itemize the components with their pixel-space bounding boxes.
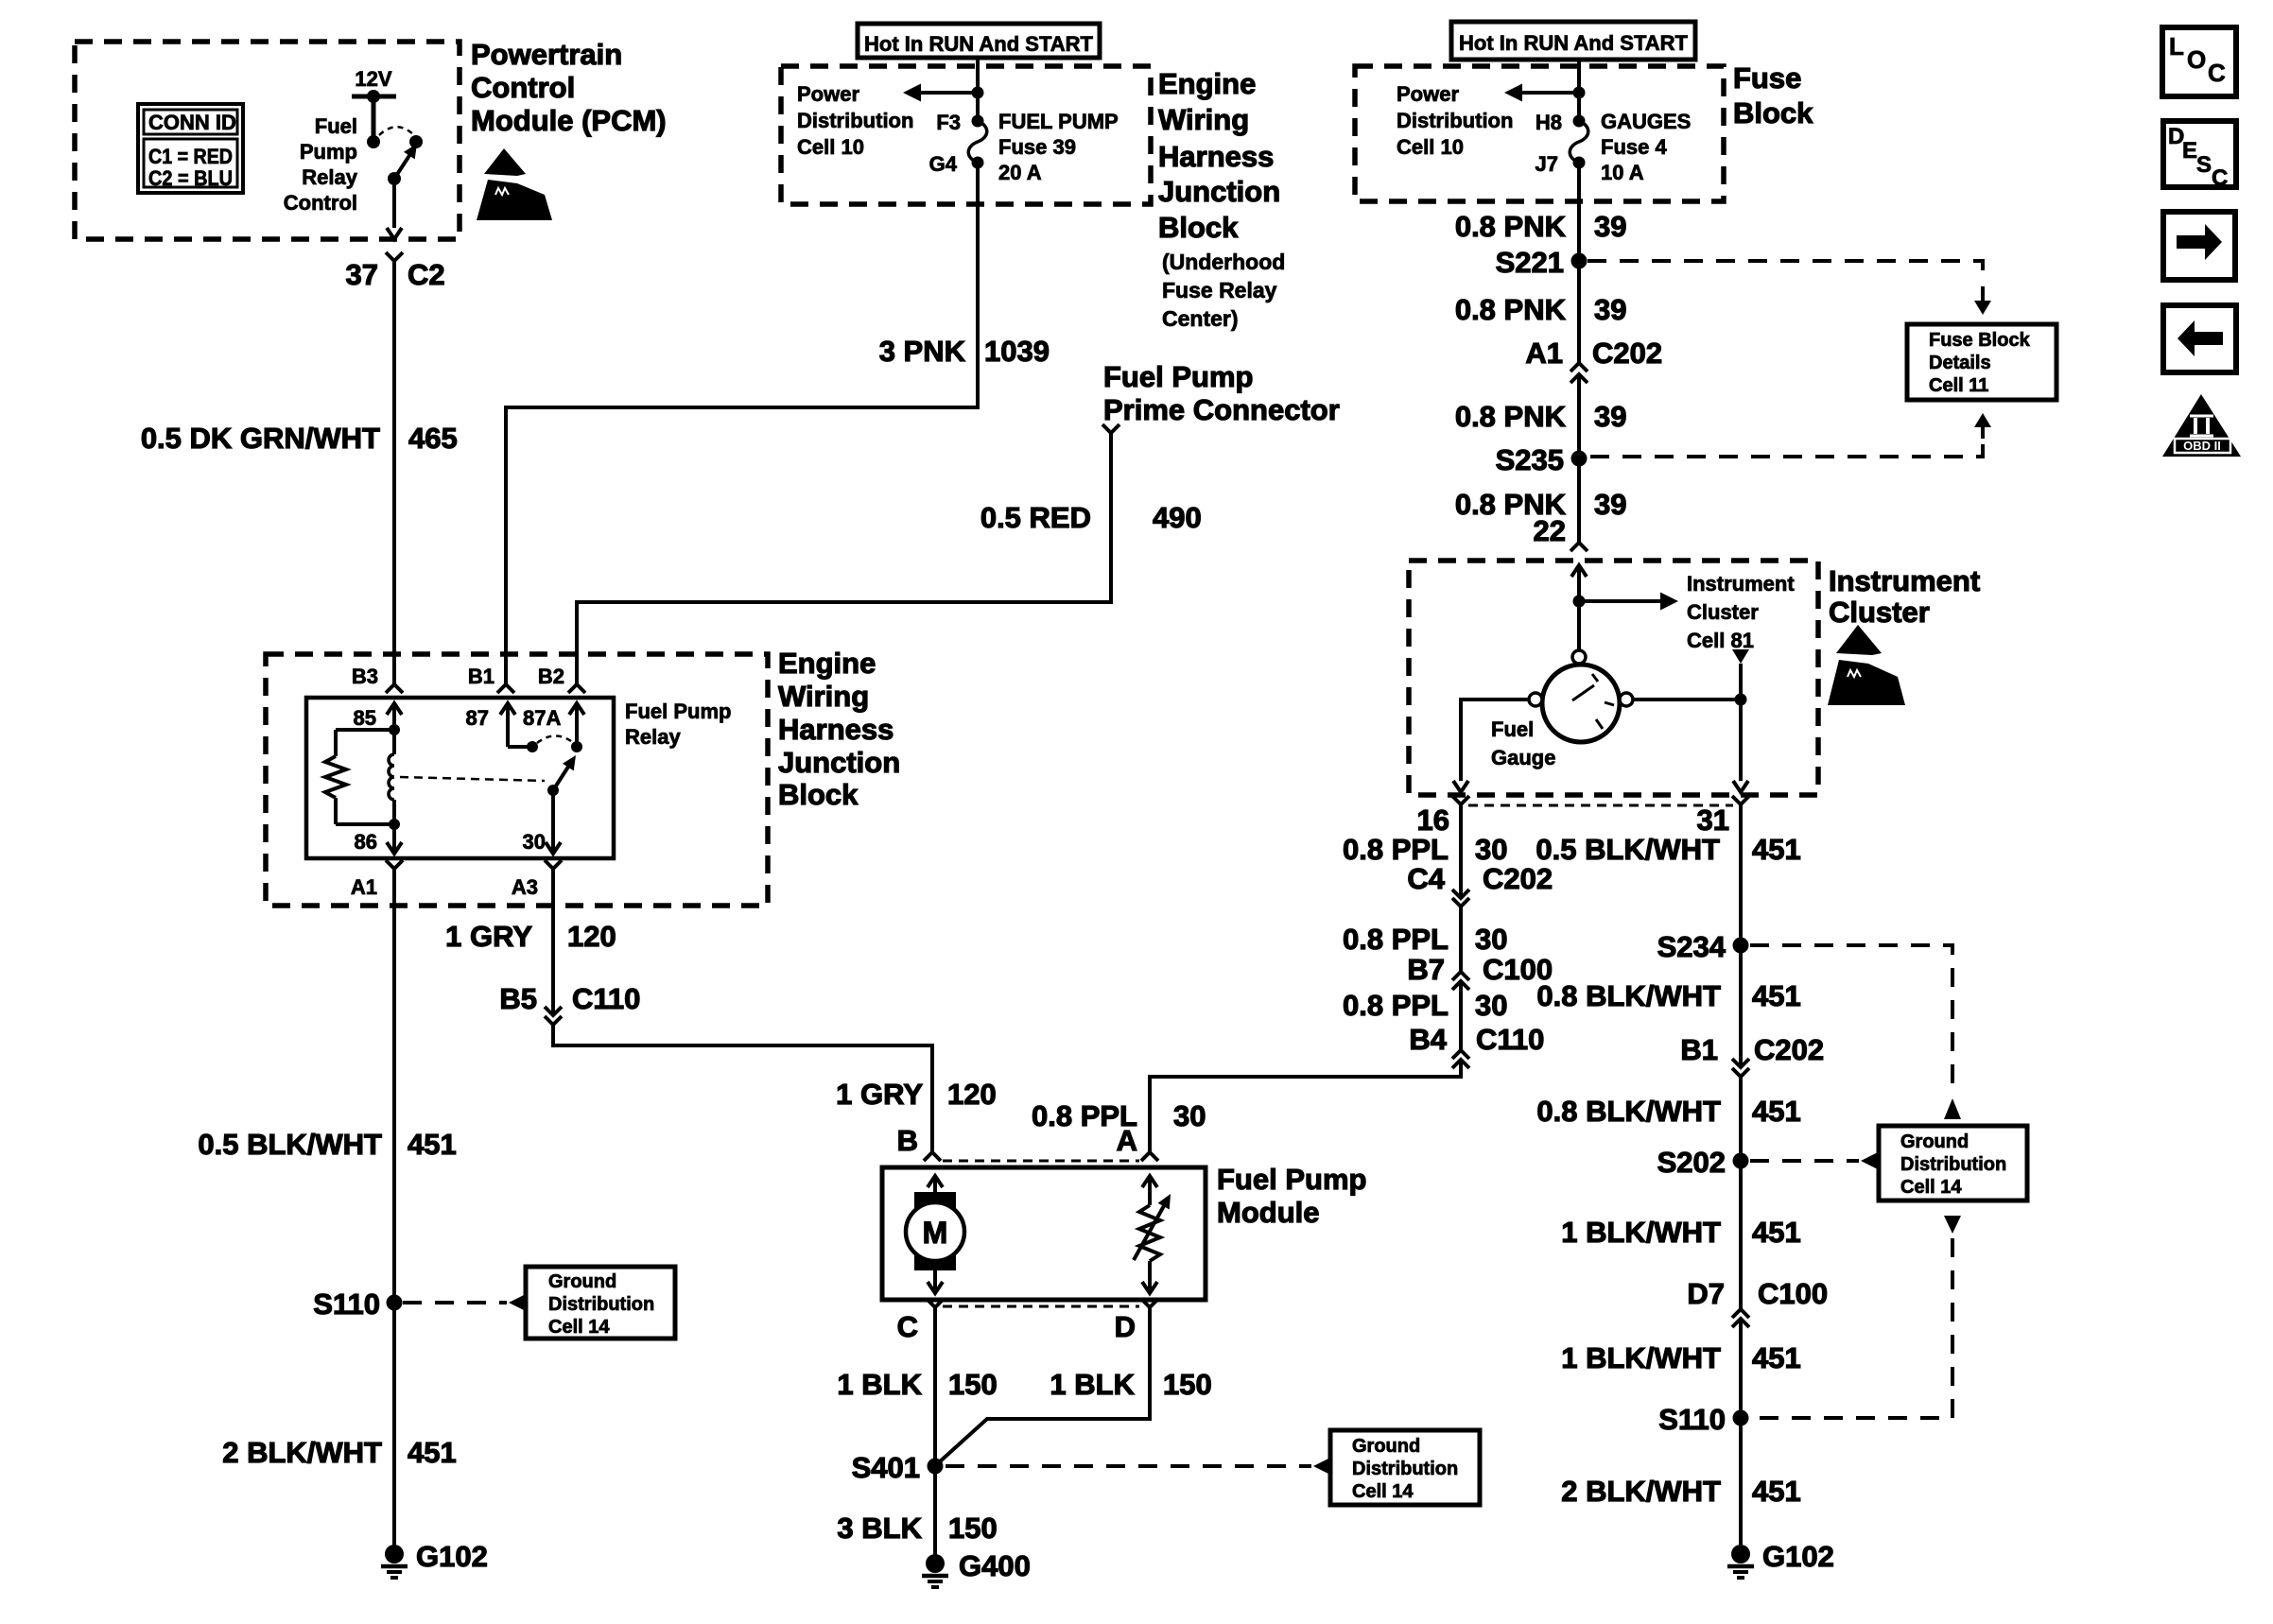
- svg-text:Cluster: Cluster: [1687, 600, 1759, 624]
- label: 0.5 BLK/WHT (row 1): [1536, 833, 1720, 866]
- label: A: [1117, 1124, 1137, 1157]
- svg-text:D7: D7: [1687, 1277, 1725, 1310]
- label: Fuel Pump Prime Connector: [1103, 360, 1340, 426]
- svg-text:0.5 RED: 0.5 RED: [980, 501, 1091, 534]
- label: G102 (left): [416, 1540, 488, 1573]
- svg-text:FUEL PUMP: FUEL PUMP: [998, 110, 1119, 133]
- svg-text:Ground: Ground: [548, 1271, 616, 1292]
- svg-text:451: 451: [1752, 979, 1801, 1012]
- wire: 1 BLK 150 pin C to S401: [933, 1307, 937, 1466]
- splice S234: [1733, 938, 1749, 954]
- svg-text:0.8 PPL: 0.8 PPL: [1343, 923, 1449, 956]
- svg-text:S: S: [2196, 152, 2212, 178]
- svg-text:0.8 BLK/WHT: 0.8 BLK/WHT: [1536, 979, 1721, 1012]
- svg-text:1 GRY: 1 GRY: [445, 920, 532, 953]
- label: 451: [408, 1128, 457, 1161]
- label: C202 (right chain): [1754, 1033, 1824, 1066]
- label: 1 GRY (lower): [836, 1078, 923, 1111]
- switch arm with arrow (PCM driver): [388, 144, 417, 185]
- svg-text:GAUGES: GAUGES: [1601, 110, 1691, 133]
- label: FUEL PUMP Fuse 39 20 A: [998, 110, 1119, 184]
- svg-text:Cell 11: Cell 11: [1929, 375, 1988, 396]
- wire: gauge sender side to pin 16: [1453, 700, 1529, 792]
- svg-text:Fuse 39: Fuse 39: [998, 135, 1076, 159]
- svg-text:Junction: Junction: [778, 746, 900, 779]
- label: Fuel Pump Relay Control: [284, 114, 358, 215]
- label: 451 (row 1): [1752, 833, 1801, 866]
- wire: 3 BLK 150 S401 to G400: [933, 1466, 937, 1556]
- svg-text:0.8 PNK: 0.8 PNK: [1455, 400, 1567, 433]
- linkage: coil-to-contact dashed line: [400, 777, 545, 781]
- svg-text:451: 451: [1752, 1216, 1801, 1249]
- label: 2 BLK/WHT (row 6): [1561, 1475, 1721, 1508]
- connector: B1 C202 in-line: [1732, 1059, 1749, 1077]
- label: D: [1115, 1310, 1136, 1343]
- label: Engine Wiring Harness Junction Block: [778, 647, 900, 811]
- label: C100 (right chain): [1758, 1277, 1828, 1310]
- svg-text:Power: Power: [797, 82, 859, 106]
- reference box: Fuse Block Details Cell 11: [1907, 324, 2056, 400]
- label: 120 (lower): [947, 1078, 997, 1111]
- connector: cluster pin 31: [1732, 796, 1749, 804]
- connector boundary: cluster bottom (dashed): [1468, 804, 1733, 807]
- icon: forward arrow box: [2163, 212, 2235, 280]
- svg-text:0.5 BLK/WHT: 0.5 BLK/WHT: [1536, 833, 1720, 866]
- label: 0.8 BLK/WHT (row 2): [1536, 979, 1721, 1012]
- svg-text:Fuel: Fuel: [315, 114, 357, 138]
- label: 1 BLK/WHT (row 4): [1561, 1216, 1721, 1249]
- label: Instrument Cluster (title): [1829, 564, 1980, 629]
- svg-text:S234: S234: [1657, 930, 1726, 963]
- label: C: [897, 1310, 918, 1343]
- svg-text:Harness: Harness: [1158, 140, 1274, 173]
- svg-text:451: 451: [1752, 1475, 1801, 1508]
- label: B2: [538, 665, 564, 688]
- wire: 0.8 PPL 30 C100 to C110: [1459, 981, 1463, 1050]
- label: 0.8 PNK (row 3): [1455, 400, 1567, 433]
- svg-text:B1: B1: [468, 665, 495, 688]
- svg-text:C2: C2: [408, 258, 445, 291]
- svg-text:Prime Connector: Prime Connector: [1103, 393, 1340, 426]
- relay pin 86 lead with arrow: [387, 824, 402, 854]
- splice S235: [1571, 451, 1588, 467]
- svg-text:Cell 14: Cell 14: [1352, 1481, 1414, 1502]
- node: switch fixed contact: [367, 135, 380, 148]
- svg-text:30: 30: [1475, 923, 1507, 956]
- label: 30 (row 1): [1475, 833, 1507, 866]
- label: 451 (left ground wire): [408, 1436, 457, 1469]
- svg-text:37: 37: [346, 258, 378, 291]
- label: S202: [1657, 1146, 1726, 1179]
- dashed reference: S110 to Ground Distribution Cell 14 (left): [403, 1294, 526, 1311]
- svg-text:16: 16: [1417, 803, 1449, 837]
- svg-text:Junction: Junction: [1158, 175, 1280, 208]
- module box: Fuse Block, dashed outline: [1355, 66, 1724, 201]
- label: 0.5 RED: [980, 501, 1091, 534]
- connector: cluster pin 16: [1452, 796, 1469, 804]
- power tag box: Hot In RUN And START (right): [1451, 22, 1695, 60]
- label: 150 (right): [1163, 1368, 1212, 1401]
- label: C1 = RED: [148, 145, 233, 168]
- svg-text:1 BLK/WHT: 1 BLK/WHT: [1561, 1216, 1721, 1249]
- motor M: fuel pump motor: [906, 1176, 964, 1293]
- label: 85: [354, 706, 376, 730]
- svg-text:3 PNK: 3 PNK: [879, 335, 966, 368]
- svg-text:G4: G4: [929, 152, 958, 176]
- wire: 0.5 DK GRN/WHT 465 from PCM to relay B3: [392, 261, 396, 684]
- label: S221: [1496, 246, 1564, 279]
- svg-text:Module: Module: [1217, 1196, 1320, 1229]
- wire: 0.8 BLK/WHT 451 C202 to S202: [1739, 1077, 1743, 1309]
- svg-text:120: 120: [567, 920, 616, 953]
- label: B5: [499, 982, 537, 1015]
- svg-text:Cell 14: Cell 14: [548, 1317, 610, 1338]
- svg-text:87A: 87A: [523, 706, 561, 730]
- svg-text:Ground: Ground: [1900, 1132, 1969, 1152]
- connector: C4 C202 in-line: [1452, 890, 1469, 907]
- ground G102 (right): [1727, 1545, 1754, 1578]
- svg-text:30: 30: [523, 830, 546, 854]
- splice S401: [928, 1459, 944, 1475]
- connector: relay terminal B3: [386, 684, 403, 693]
- connector: PCM pin 37 (C2): [386, 252, 403, 261]
- label: CONN ID: [148, 111, 236, 134]
- svg-text:Fuel Pump: Fuel Pump: [1103, 360, 1253, 393]
- label: B4: [1409, 1023, 1447, 1056]
- icon: back arrow box: [2163, 305, 2236, 372]
- connector: relay terminal B1: [497, 684, 514, 693]
- svg-text:Ground: Ground: [1352, 1436, 1420, 1457]
- svg-text:Distribution: Distribution: [548, 1294, 654, 1315]
- svg-text:490: 490: [1153, 501, 1202, 534]
- svg-text:Distribution: Distribution: [1900, 1154, 2006, 1175]
- svg-text:G102: G102: [1762, 1540, 1834, 1573]
- svg-text:C2 = BLU: C2 = BLU: [148, 166, 233, 190]
- label: A1 (C202): [1525, 337, 1563, 370]
- svg-text:12V: 12V: [355, 67, 391, 91]
- svg-text:C4: C4: [1407, 862, 1445, 895]
- label: 120 (upper): [567, 920, 616, 953]
- svg-text:31: 31: [1697, 803, 1729, 837]
- dashed reference: Fuse Block Details to S235: [1588, 413, 1991, 457]
- label: 451 (row 2): [1752, 979, 1801, 1012]
- svg-text:S401: S401: [852, 1451, 920, 1484]
- wire: 0.5 RED 490 prime connector to relay B2: [577, 433, 1111, 684]
- svg-text:Fuse Block: Fuse Block: [1929, 330, 2031, 351]
- svg-text:Block: Block: [778, 778, 859, 811]
- svg-text:S221: S221: [1496, 246, 1564, 279]
- svg-text:87: 87: [466, 706, 489, 730]
- svg-text:C202: C202: [1483, 862, 1553, 895]
- svg-text:Wiring: Wiring: [1158, 103, 1249, 136]
- label: 39 (row 4): [1594, 488, 1626, 521]
- svg-text:Instrument: Instrument: [1687, 572, 1795, 596]
- label: B3: [352, 665, 378, 688]
- label: Fuse Block: [1733, 61, 1813, 130]
- svg-text:39: 39: [1594, 210, 1626, 243]
- label: C100 (cluster chain): [1483, 953, 1553, 986]
- svg-text:Distribution: Distribution: [1352, 1459, 1458, 1479]
- svg-text:Distribution: Distribution: [1397, 109, 1513, 132]
- svg-text:3 BLK: 3 BLK: [837, 1512, 922, 1545]
- svg-text:C110: C110: [572, 982, 640, 1015]
- node: fuse terminal H8: [1573, 115, 1586, 128]
- svg-text:0.5 DK GRN/WHT: 0.5 DK GRN/WHT: [141, 422, 380, 455]
- label: 31: [1697, 803, 1729, 837]
- svg-text:0.8 BLK/WHT: 0.8 BLK/WHT: [1536, 1095, 1721, 1128]
- label: 1 BLK/WHT (row 5): [1561, 1341, 1721, 1374]
- label: Fuel Gauge: [1491, 717, 1555, 769]
- svg-text:Fuse: Fuse: [1733, 61, 1801, 95]
- connector boundary: module bottom (dashed): [943, 1305, 1139, 1308]
- label: 0.8 PPL (row 3): [1343, 989, 1449, 1022]
- svg-text:Instrument: Instrument: [1829, 564, 1980, 597]
- relay pin 30 lead with arrow: [546, 790, 561, 854]
- svg-text:Harness: Harness: [778, 713, 894, 746]
- svg-text:B1: B1: [1680, 1033, 1718, 1066]
- svg-text:Fuel: Fuel: [1491, 717, 1534, 741]
- label: C202 (top): [1592, 337, 1662, 370]
- module box: Engine Wiring Harness Junction Block (relay), dashed outline: [266, 654, 768, 906]
- label: 3 BLK: [837, 1512, 922, 1545]
- label: S235: [1496, 443, 1564, 476]
- label: A3: [512, 875, 538, 899]
- wire: 0.5 BLK/WHT 451 pin 31 down: [1739, 804, 1743, 1067]
- svg-text:O: O: [2187, 45, 2206, 74]
- svg-text:10 A: 10 A: [1601, 161, 1644, 184]
- svg-text:Control: Control: [284, 191, 357, 215]
- reference box: Ground Distribution Cell 14 (right): [1879, 1126, 2027, 1201]
- svg-text:465: 465: [408, 422, 458, 455]
- svg-text:Pump: Pump: [300, 140, 357, 164]
- dashed reference: S221 to Fuse Block Details: [1588, 261, 1991, 315]
- svg-text:A1: A1: [1525, 337, 1563, 370]
- dashed reference: Ground Distribution (right) to S110: [1750, 1216, 1961, 1418]
- svg-text:Power: Power: [1397, 82, 1459, 106]
- svg-text:Relay: Relay: [302, 165, 357, 189]
- connector: fuel pump module pin A: [1141, 1152, 1158, 1161]
- svg-text:1 BLK: 1 BLK: [1050, 1368, 1135, 1401]
- relay pin 85 lead with arrow: [387, 703, 402, 735]
- label: C2: [408, 258, 445, 291]
- power tag box: Hot In RUN And START (left): [858, 24, 1100, 58]
- label: G102 (right): [1762, 1540, 1834, 1573]
- svg-text:Powertrain: Powertrain: [471, 38, 622, 71]
- dashed reference: S234 to Ground Distribution Cell 14 (right): [1750, 945, 1961, 1119]
- svg-text:S110: S110: [1658, 1403, 1726, 1436]
- label: 451 (row 4): [1752, 1216, 1801, 1249]
- svg-text:A: A: [1117, 1124, 1137, 1157]
- wire: 3 PNK 1039 fuse to relay B1: [506, 163, 978, 684]
- svg-text:150: 150: [948, 1368, 998, 1401]
- connector: B5 C110 in-line: [545, 1007, 562, 1025]
- label: G4: [929, 152, 958, 176]
- svg-text:B2: B2: [538, 665, 564, 688]
- svg-text:C202: C202: [1754, 1033, 1824, 1066]
- connector: relay terminal B2: [568, 684, 585, 693]
- svg-text:L: L: [2169, 32, 2184, 60]
- connector: fuel pump prime connector: [1102, 424, 1119, 433]
- module box: Instrument Cluster, dashed outline: [1409, 561, 1818, 795]
- wire: hot feed into fuse H8: [1577, 60, 1581, 121]
- label: Powertrain Control Module (PCM): [471, 38, 667, 137]
- svg-text:Cell 10: Cell 10: [797, 135, 864, 159]
- svg-text:Hot In RUN And START: Hot In RUN And START: [864, 32, 1094, 56]
- svg-text:D: D: [1115, 1310, 1136, 1343]
- module box: Engine Wiring Harness Junction Block (fuse), dashed outline: [781, 66, 1151, 204]
- arrow: feed to Power Distribution Cell 10 (right): [1504, 84, 1586, 102]
- svg-text:22: 22: [1534, 514, 1566, 547]
- svg-text:C: C: [2208, 59, 2226, 87]
- svg-text:Block: Block: [1733, 96, 1813, 130]
- label: Power Distribution Cell 10 (right box): [1397, 82, 1513, 159]
- label: B1: [468, 665, 495, 688]
- wire: 1 BLK/WHT 451 C100 to G102: [1739, 1319, 1743, 1546]
- svg-text:J7: J7: [1536, 152, 1558, 176]
- switch: fuel pump relay control (dashed throw arc): [379, 127, 413, 135]
- wire: 1 BLK 150 pin D to S401: [938, 1307, 1150, 1463]
- connector: instrument cluster pin 22: [1570, 543, 1588, 551]
- fuel gauge: left terminal: [1529, 693, 1542, 706]
- fuse F4: GAUGES fuse element: [1570, 121, 1588, 163]
- label: 0.5 BLK/WHT: [198, 1128, 382, 1161]
- label: Fuel Pump Relay: [625, 700, 731, 749]
- wire: 0.8 PPL 30 pin16 to C202: [1459, 804, 1463, 898]
- svg-text:C: C: [2212, 165, 2228, 191]
- splice S110 (right): [1733, 1410, 1749, 1426]
- svg-text:2 BLK/WHT: 2 BLK/WHT: [1561, 1475, 1721, 1508]
- arrow: feed to Power Distribution Cell 10 (left): [903, 84, 984, 102]
- svg-text:451: 451: [408, 1128, 457, 1161]
- svg-text:85: 85: [354, 706, 376, 730]
- svg-text:0.8 PNK: 0.8 PNK: [1455, 293, 1567, 326]
- label: S110 (right): [1658, 1403, 1726, 1436]
- svg-text:39: 39: [1594, 293, 1626, 326]
- connector: D7 C100 in-line: [1732, 1309, 1749, 1327]
- icon: DESC legend box: [2163, 121, 2236, 191]
- label: Instrument Cluster Cell 81: [1687, 572, 1795, 652]
- label: S401: [852, 1451, 920, 1484]
- svg-text:Block: Block: [1158, 211, 1239, 244]
- label: G400: [959, 1549, 1031, 1582]
- label: 1 BLK (right): [1050, 1368, 1135, 1401]
- svg-text:Hot In RUN And START: Hot In RUN And START: [1459, 31, 1689, 55]
- ground G400: [922, 1554, 948, 1587]
- svg-text:Fuse Relay: Fuse Relay: [1162, 278, 1277, 302]
- label: 490: [1153, 501, 1202, 534]
- svg-text:Engine: Engine: [778, 647, 876, 680]
- svg-text:G102: G102: [416, 1540, 488, 1573]
- wire: 12V feed to relay-control switch: [372, 96, 376, 142]
- label: C2 = BLU: [148, 166, 233, 190]
- label: 39 (row 3): [1594, 400, 1626, 433]
- label: 39 (row 1): [1594, 210, 1626, 243]
- svg-text:120: 120: [947, 1078, 997, 1111]
- node: fuse terminal J7: [1573, 157, 1586, 169]
- label: B1 (C202): [1680, 1033, 1718, 1066]
- svg-text:20 A: 20 A: [998, 161, 1042, 184]
- icon: OBD II triangle: [2162, 394, 2241, 457]
- label: 0.8 PNK (row 2): [1455, 293, 1567, 326]
- connector: relay terminal A1: [386, 860, 403, 869]
- wire: 1 GRY 120 relay A3 to C110: [551, 869, 555, 1015]
- svg-text:CONN ID: CONN ID: [148, 111, 236, 134]
- splice S221: [1571, 253, 1588, 269]
- svg-text:Fuel Pump: Fuel Pump: [625, 700, 731, 723]
- label: D7: [1687, 1277, 1725, 1310]
- svg-text:86: 86: [355, 830, 377, 854]
- label: 150 (ground): [948, 1512, 998, 1545]
- connector: B7 C100 in-line: [1452, 972, 1469, 990]
- svg-text:A1: A1: [351, 875, 377, 899]
- wire: hot feed into fuse F3: [976, 58, 980, 121]
- svg-text:C: C: [897, 1310, 918, 1343]
- svg-text:451: 451: [1752, 833, 1801, 866]
- svg-text:Module (PCM): Module (PCM): [471, 104, 667, 137]
- arrow: to Instrument Cluster Cell 81: [1579, 593, 1678, 611]
- connector: B4 C110 in-line: [1452, 1050, 1469, 1068]
- label: 12V supply: [355, 67, 391, 91]
- label: C110 (cluster chain): [1476, 1023, 1544, 1056]
- svg-text:1 BLK/WHT: 1 BLK/WHT: [1561, 1341, 1721, 1374]
- gauge: Fuel Gauge dial: [1542, 665, 1620, 742]
- label: A1: [351, 875, 377, 899]
- svg-text:Cell 81: Cell 81: [1687, 629, 1754, 652]
- relay coil (between 85 and 86): [389, 730, 394, 824]
- svg-text:Cell 14: Cell 14: [1900, 1177, 1962, 1198]
- svg-text:Gauge: Gauge: [1491, 746, 1555, 769]
- svg-text:E: E: [2182, 138, 2197, 164]
- dashed reference: S401 to Ground Distribution Cell 14 (middle): [946, 1458, 1330, 1475]
- label: 87: [466, 706, 489, 730]
- splice S202: [1733, 1153, 1749, 1169]
- connector: A1 C202 in-line: [1570, 363, 1588, 383]
- wire: 1 GRY 120 C110 to pin B: [553, 1025, 932, 1152]
- connector: fuel pump module pin D: [1141, 1299, 1158, 1307]
- svg-text:B3: B3: [352, 665, 378, 688]
- connector boundary: module top (dashed): [943, 1160, 1139, 1163]
- label: C4: [1407, 862, 1445, 895]
- variable resistor: fuel level sender: [1134, 1176, 1171, 1293]
- svg-text:150: 150: [948, 1512, 998, 1545]
- node: relay pin 86 junction: [389, 819, 400, 830]
- svg-text:Wiring: Wiring: [778, 680, 869, 713]
- fuel gauge: right terminal: [1620, 693, 1633, 706]
- label: Ground Distribution Cell 14 (left): [548, 1271, 654, 1338]
- node: switch moving contact: [409, 135, 423, 148]
- label: C202 (cluster chain): [1483, 862, 1553, 895]
- icon: ESD sensitivity symbol (PCM): [477, 148, 552, 220]
- svg-text:C100: C100: [1758, 1277, 1828, 1310]
- svg-text:1039: 1039: [984, 335, 1050, 368]
- label: 86: [355, 830, 377, 854]
- svg-text:1 BLK: 1 BLK: [837, 1368, 922, 1401]
- connector: fuel pump module pin B: [924, 1152, 941, 1161]
- label: 0.5 DK GRN/WHT: [141, 422, 380, 455]
- label: Ground Distribution Cell 14 (right): [1900, 1132, 2006, 1198]
- svg-text:30: 30: [1475, 989, 1507, 1022]
- svg-text:0.8 PPL: 0.8 PPL: [1343, 833, 1449, 866]
- label: 3 PNK: [879, 335, 966, 368]
- relay K1: Fuel Pump Relay box: [306, 698, 614, 858]
- wire: 0.8 PNK 39 C202 to instrument cluster: [1577, 374, 1581, 543]
- label: 0.8 PPL (row 1): [1343, 833, 1449, 866]
- label: 30 (module): [1173, 1099, 1206, 1132]
- svg-text:451: 451: [1752, 1095, 1801, 1128]
- resistor: relay suppression resistor (parallel with coil): [325, 730, 394, 824]
- svg-text:S202: S202: [1657, 1146, 1726, 1179]
- label: 22: [1534, 514, 1566, 547]
